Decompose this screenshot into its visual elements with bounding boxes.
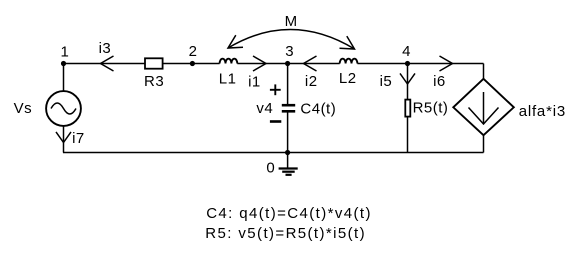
svg-text:C4(t): C4(t) [300,101,336,118]
svg-text:i5: i5 [380,73,393,90]
svg-text:0: 0 [266,160,275,177]
capacitor C4 [282,105,295,111]
svg-text:i7: i7 [72,130,85,147]
wire: R5 bottom to bottom rail [407,118,409,153]
node 0 junction dot [285,150,290,155]
current arrow i5 [400,73,415,84]
wire: node 1 down to Vs top [63,64,65,92]
current arrow i6 [440,56,453,71]
svg-text:alfa*i3: alfa*i3 [519,103,566,120]
node 2 [190,61,195,66]
svg-text:4: 4 [402,43,411,60]
wire: right branch down to dependent source top [483,64,485,80]
svg-text:L1: L1 [219,70,237,87]
svg-text:R3: R3 [144,73,164,90]
svg-text:i6: i6 [433,73,446,90]
svg-text:i3: i3 [99,40,112,57]
wire: capacitor C4 bottom plate to bottom rail (node 0) [287,113,289,153]
wire: node 3 down to capacitor C4 top plate [287,64,289,105]
inductor L2 [340,59,358,64]
resistor R5 [405,100,410,117]
wire: top rail node 1 to R3 [63,63,145,65]
svg-text:2: 2 [189,43,198,60]
svg-text:Vs: Vs [14,100,33,117]
svg-text:3: 3 [285,43,294,60]
svg-text:M: M [285,13,298,30]
resistor R3 [145,58,163,68]
wire: dependent source bottom to bottom rail [483,135,485,153]
polarity minus sign [270,120,281,123]
polarity plus sign [270,84,281,95]
wire: top rail L1 to L2 (through node 3) [237,63,339,65]
node 4 [405,61,410,66]
node 3 [285,61,290,66]
inductor L1 [220,59,238,64]
svg-text:R5(t): R5(t) [413,100,449,117]
wire: top rail R3 to L1 (through node 2) [163,63,220,65]
svg-text:1: 1 [60,43,69,60]
voltage source Vs [46,91,81,126]
svg-text:C4: q4(t)=C4(t)*v4(t): C4: q4(t)=C4(t)*v4(t) [206,205,372,222]
wire: top rail L2 to right corner (through node 4) [357,63,483,65]
current arrow i2 [304,56,317,71]
current arrow i1 [253,56,266,71]
svg-text:L2: L2 [339,70,357,87]
wire: Vs bottom to bottom rail [63,127,65,153]
current arrow i7 [56,132,71,143]
svg-text:v4: v4 [256,100,273,117]
mutual inductance M coupling arc [228,29,355,49]
dependent current source alfa*i3 [453,79,514,135]
current arrow i3 [101,56,114,71]
svg-text:i2: i2 [305,73,318,90]
svg-text:i1: i1 [248,73,261,90]
svg-text:R5: v5(t)=R5(t)*i5(t): R5: v5(t)=R5(t)*i5(t) [205,225,366,242]
node 1 [61,61,66,66]
wire: bottom rail [63,152,484,154]
wire: node 4 down to R5 top [407,64,409,100]
ground symbol at node 0 [279,153,298,175]
